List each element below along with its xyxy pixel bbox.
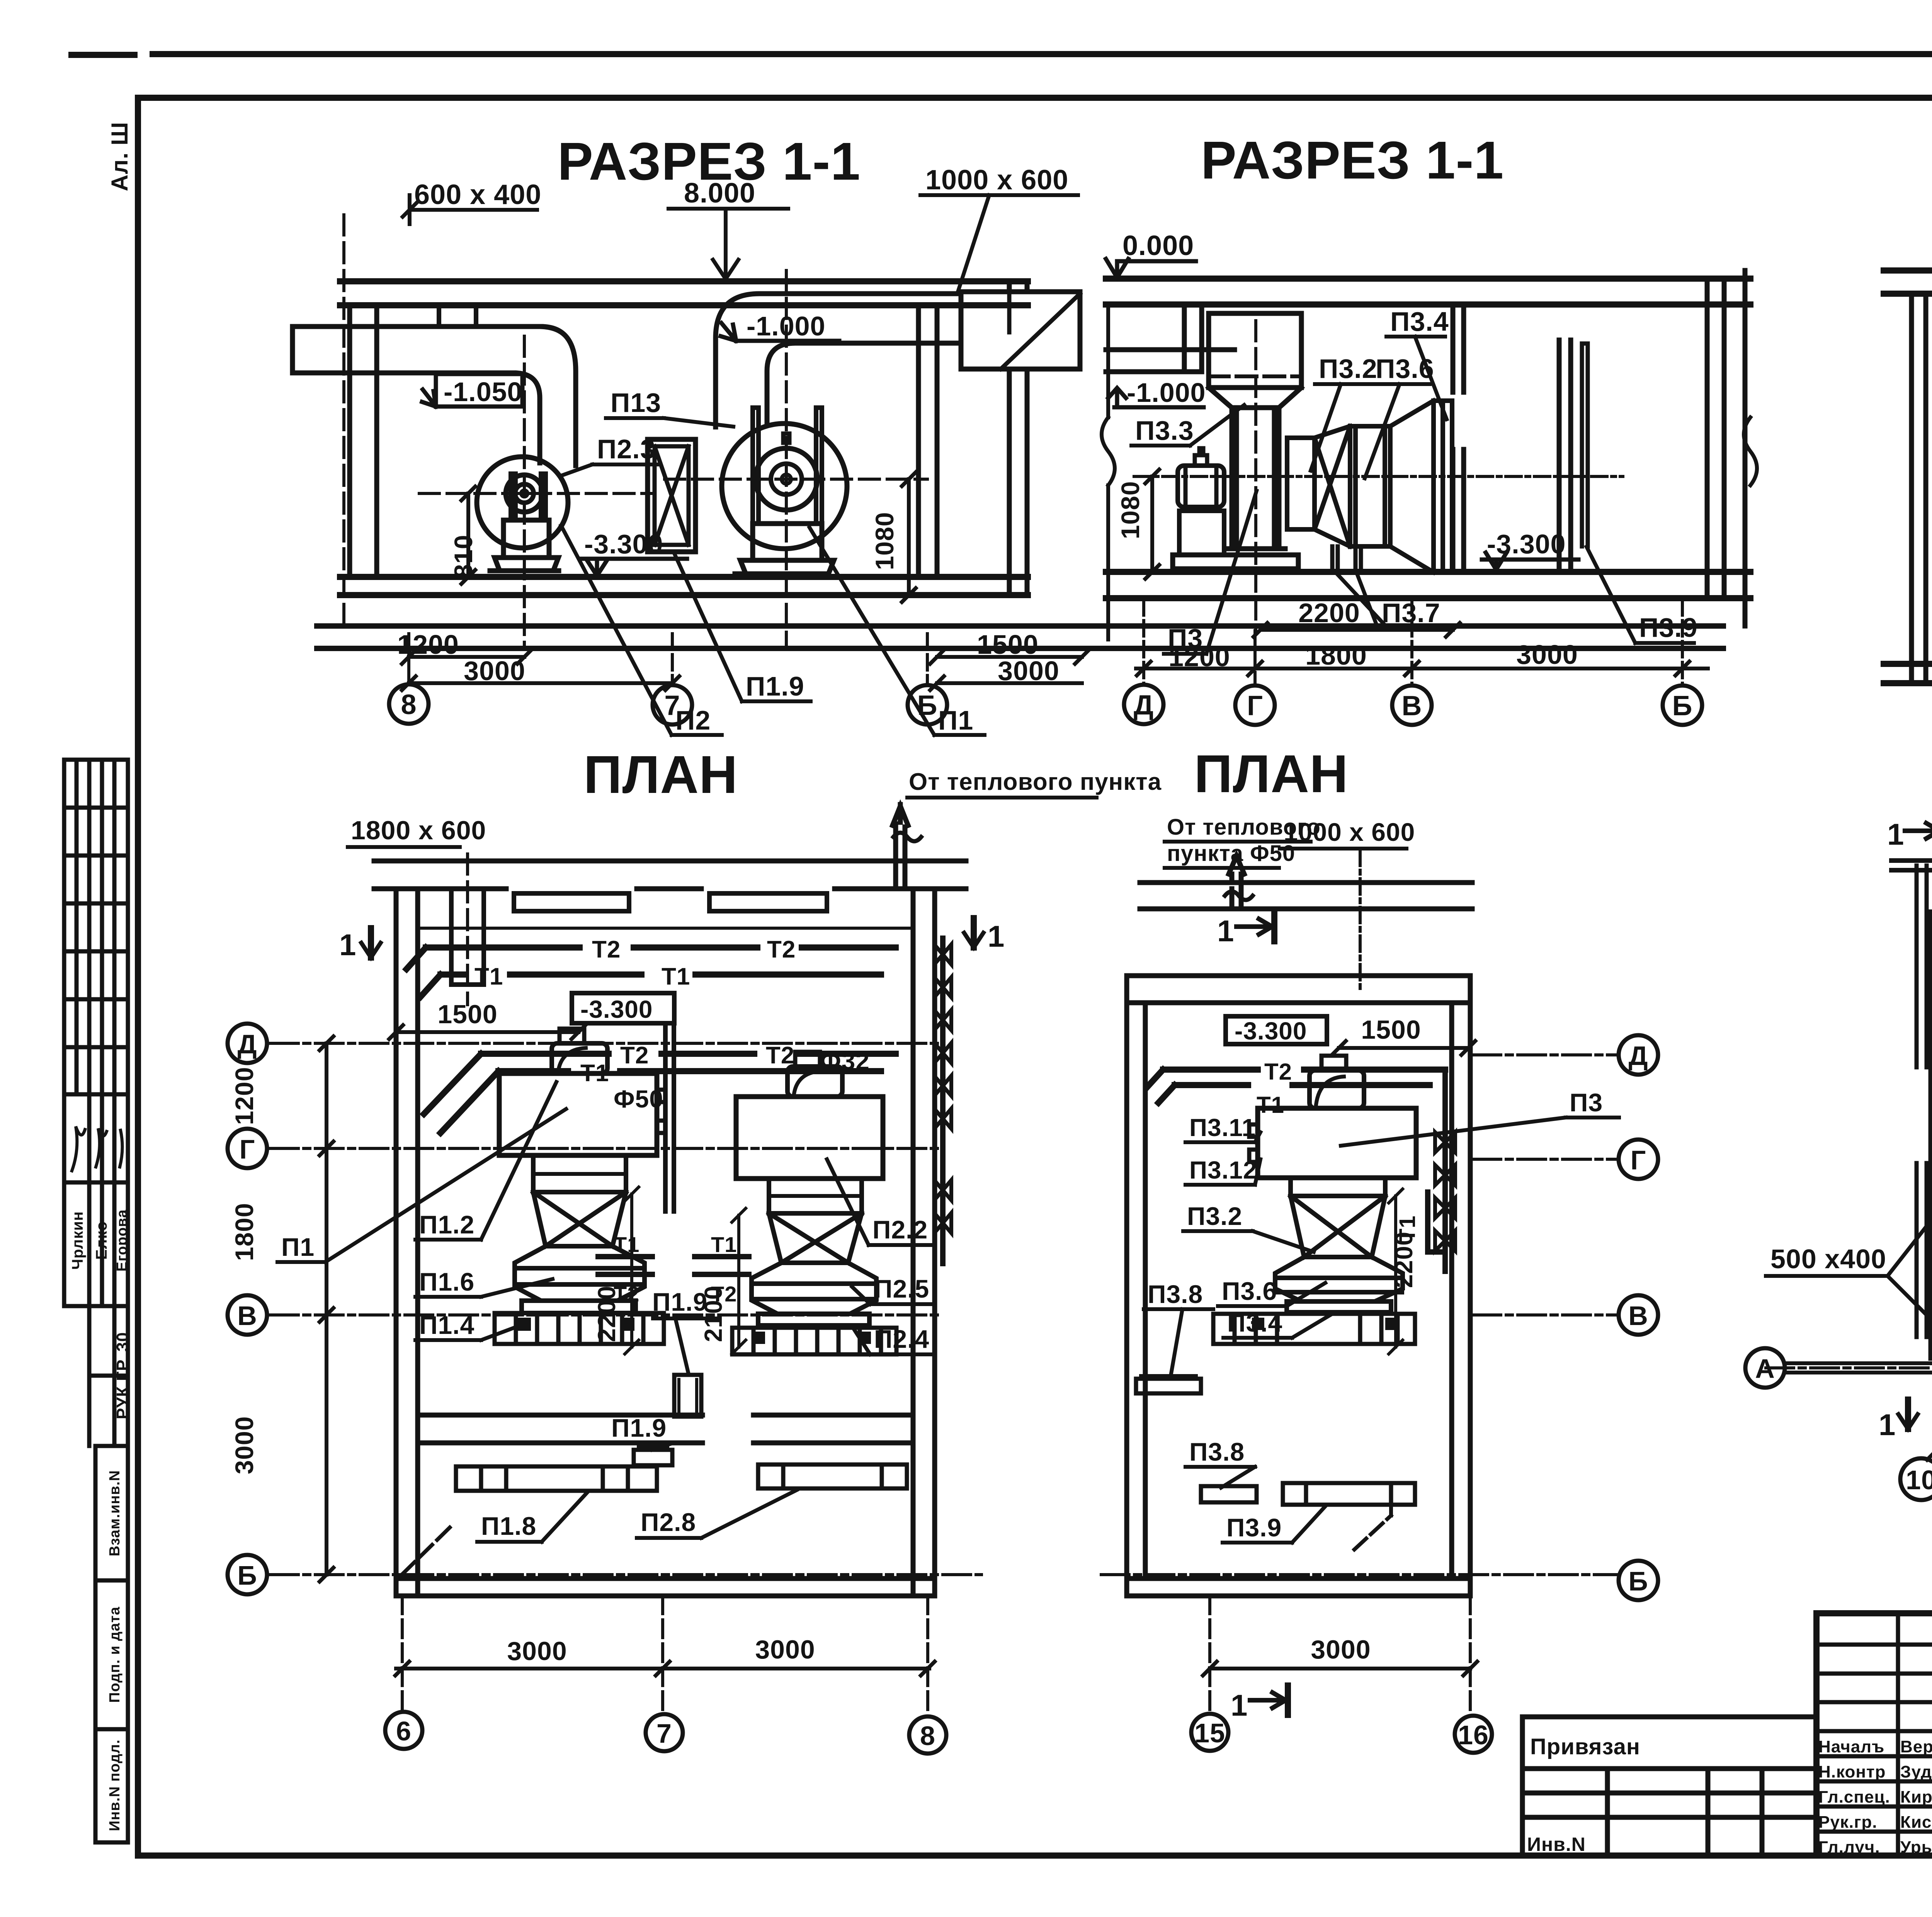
- fan П1 axes: [665, 270, 927, 649]
- axis stems: [1144, 600, 1682, 685]
- duct axis chain: [1359, 850, 1362, 989]
- expanding cone: [1390, 401, 1434, 572]
- unit П3 flange: [1291, 1178, 1385, 1196]
- left dim column: [320, 1036, 333, 1582]
- unit П3 bell: [1275, 1257, 1403, 1301]
- svg-text:Привязан: Привязан: [1530, 1734, 1640, 1759]
- svg-text:Б: Б: [1628, 1566, 1648, 1596]
- fan П1 scroll: [722, 424, 847, 549]
- svg-text:600 x 400: 600 x 400: [414, 179, 541, 210]
- svg-text:15: 15: [1194, 1718, 1225, 1748]
- valve stack riser: [940, 938, 946, 1264]
- left wall: [350, 305, 377, 577]
- svg-text:-3.300: -3.300: [584, 529, 663, 559]
- outlet flange: [1434, 401, 1452, 572]
- SECTION3: [1884, 130, 1932, 721]
- bubble Б: [1619, 1561, 1658, 1600]
- ceiling slab: [1884, 270, 1932, 294]
- unit П2 base: [758, 1314, 869, 1325]
- bubble Г: [1619, 1140, 1658, 1179]
- svg-text:Г: Г: [1247, 691, 1263, 721]
- damper box: [648, 439, 696, 552]
- svg-text:Т2: Т2: [592, 936, 621, 963]
- unit П3 chamber: [1258, 1108, 1416, 1178]
- svg-text:500 x400: 500 x400: [1770, 1244, 1886, 1274]
- stamp upper table: [64, 760, 128, 1842]
- svg-text:3000: 3000: [755, 1635, 815, 1664]
- valves: [1435, 1132, 1455, 1251]
- svg-text:П2.2: П2.2: [872, 1215, 928, 1244]
- hopper: [1209, 313, 1301, 388]
- svg-text:7: 7: [656, 1718, 672, 1749]
- drain box b: [634, 1450, 672, 1465]
- svg-text:П3.2: П3.2: [1319, 354, 1378, 384]
- svg-text:Г: Г: [1631, 1145, 1646, 1175]
- stamp lower strip: [95, 1446, 128, 1842]
- PLAN3: [1745, 757, 1932, 1502]
- svg-text:П1.8: П1.8: [481, 1512, 536, 1540]
- supports: [1328, 546, 1376, 571]
- braced cone: [1315, 426, 1350, 546]
- svg-text:П1.6: П1.6: [419, 1267, 474, 1296]
- column base: [1226, 546, 1285, 551]
- corner break: [1354, 1490, 1391, 1550]
- svg-text:1: 1: [1887, 817, 1904, 851]
- svg-text:П3.9: П3.9: [1639, 612, 1698, 643]
- bubble В: [1619, 1295, 1658, 1335]
- pipe T1: [1158, 1085, 1430, 1103]
- svg-text:В: В: [1402, 691, 1422, 721]
- svg-text:Т1: Т1: [662, 963, 690, 990]
- svg-text:Зудина: Зудина: [1900, 1762, 1932, 1781]
- bubble Г: [228, 1129, 267, 1168]
- svg-text:П2.4: П2.4: [874, 1325, 929, 1353]
- svg-text:П1: П1: [281, 1233, 315, 1261]
- bottom stems: [1210, 1596, 1470, 1714]
- svg-text:П3.12: П3.12: [1189, 1156, 1257, 1184]
- bubble 7: [653, 685, 692, 725]
- motor: [1178, 466, 1224, 507]
- right wall: [1707, 270, 1745, 626]
- left wall stub: [1184, 304, 1202, 372]
- bubble 15: [1191, 1714, 1228, 1751]
- unit П1 bell: [515, 1246, 645, 1301]
- unit П2 fan: [787, 1067, 842, 1097]
- bottom wall: [1127, 1579, 1470, 1596]
- bubble 8: [909, 1716, 946, 1754]
- corridor wall: [374, 861, 966, 889]
- unit П2 chamber: [736, 1097, 883, 1179]
- svg-text:6: 6: [396, 1716, 412, 1746]
- svg-text:Началъ: Началъ: [1818, 1737, 1884, 1756]
- unit П3 fan: [1310, 1070, 1364, 1108]
- bubble В: [228, 1295, 267, 1335]
- svg-text:1200: 1200: [230, 1067, 259, 1125]
- axis Д line: [270, 1042, 943, 1045]
- motor pedestal: [1179, 511, 1224, 555]
- svg-text:1500: 1500: [1361, 1015, 1421, 1044]
- bubble Д: [1619, 1035, 1658, 1075]
- svg-text:РУК.ГР. 30: РУК.ГР. 30: [113, 1332, 132, 1419]
- unit П3 cone: [1291, 1196, 1385, 1257]
- svg-text:1: 1: [339, 928, 356, 962]
- svg-text:1: 1: [988, 919, 1005, 953]
- svg-text:-3.300: -3.300: [1235, 1017, 1307, 1045]
- svg-text:Вержбицка: Вержбицка: [1900, 1737, 1932, 1756]
- svg-text:-1.000: -1.000: [1127, 378, 1206, 408]
- lower slab: [317, 626, 1723, 648]
- svg-text:В: В: [1628, 1301, 1648, 1331]
- fan П2 scroll: [477, 457, 568, 548]
- fan П2 axes: [419, 336, 653, 649]
- bubble Б: [908, 685, 947, 725]
- svg-text:П2.8: П2.8: [641, 1508, 696, 1536]
- axis А lines: [1785, 1363, 1932, 1373]
- svg-text:Урьев: Урьев: [1900, 1838, 1932, 1857]
- svg-text:Т1: Т1: [474, 963, 503, 990]
- heater stubs right: [695, 1257, 749, 1274]
- svg-text:П3.6: П3.6: [1222, 1277, 1277, 1305]
- right wall: [913, 889, 935, 1596]
- svg-text:Т1: Т1: [1257, 1092, 1284, 1118]
- svg-text:РАЗРЕЗ 1-1: РАЗРЕЗ 1-1: [1201, 131, 1504, 190]
- svg-text:1800 x 600: 1800 x 600: [351, 816, 486, 845]
- svg-text:А: А: [1755, 1354, 1775, 1384]
- svg-text:П3.3: П3.3: [1135, 415, 1194, 446]
- T1 drop pipe: [1428, 1192, 1444, 1252]
- unit П3 foundation: [1213, 1314, 1415, 1344]
- bubble 10: [1900, 1458, 1932, 1500]
- svg-text:8.000: 8.000: [684, 178, 755, 209]
- svg-text:1800: 1800: [1305, 640, 1367, 670]
- base plate: [1173, 555, 1298, 569]
- PLAN1: [228, 745, 1162, 1754]
- bubble Б: [1663, 685, 1702, 725]
- svg-text:3000: 3000: [1311, 1635, 1371, 1664]
- duct elbow to fan П2: [514, 327, 576, 466]
- svg-text:Д: Д: [238, 1029, 257, 1059]
- unit П2 foundation: [732, 1328, 896, 1354]
- bubble Д: [228, 1024, 267, 1063]
- unit П2 flange: [769, 1179, 862, 1213]
- svg-text:Чрлкин: Чрлкин: [69, 1211, 86, 1270]
- svg-text:7: 7: [664, 690, 680, 721]
- svg-text:1500: 1500: [437, 1000, 497, 1029]
- svg-text:П3.11: П3.11: [1189, 1114, 1256, 1141]
- svg-text:Ал. Ш: Ал. Ш: [107, 122, 133, 191]
- unit П1 flange: [533, 1155, 626, 1192]
- SECTION2: [1102, 131, 1757, 725]
- top rule line: [71, 54, 1932, 55]
- bubble 6: [385, 1712, 422, 1749]
- bubble Д: [1124, 685, 1163, 724]
- left wall: [1912, 294, 1932, 683]
- svg-text:-3.300: -3.300: [1487, 529, 1566, 559]
- room inner face line: [418, 927, 913, 930]
- ceiling slab: [340, 281, 1028, 305]
- fan П2 pedestal: [503, 520, 549, 558]
- corridor wall: [1140, 883, 1472, 909]
- far right wall: [1009, 281, 1027, 595]
- svg-text:-1.050: -1.050: [444, 377, 522, 407]
- drain box a: [1136, 1379, 1201, 1393]
- svg-text:Т1: Т1: [614, 1232, 639, 1257]
- svg-text:Т2: Т2: [1264, 1059, 1292, 1085]
- svg-text:Кириллова: Кириллова: [1900, 1788, 1932, 1806]
- svg-text:ПЛАН: ПЛАН: [583, 745, 738, 805]
- right break: [1744, 417, 1757, 485]
- corridor wall: [1891, 861, 1932, 870]
- foundation П3.9: [1283, 1483, 1415, 1505]
- left extension привязан box: [1522, 1717, 1816, 1856]
- pipe T1 upper: [420, 975, 881, 997]
- svg-text:Взам.инв.N: Взам.инв.N: [107, 1470, 123, 1556]
- unit П1 foundation: [495, 1313, 664, 1344]
- svg-text:1: 1: [1217, 914, 1234, 948]
- revision grid rows: [1816, 1645, 1932, 1832]
- svg-text:1000 x 600: 1000 x 600: [925, 165, 1068, 196]
- svg-text:П3.2: П3.2: [1187, 1202, 1242, 1230]
- box -3.300: [1226, 1016, 1327, 1044]
- axis Б line: [1101, 1573, 1618, 1576]
- corner break: [402, 1527, 450, 1575]
- bubble В: [1392, 685, 1432, 725]
- svg-text:Н.контр: Н.контр: [1818, 1762, 1886, 1781]
- svg-text:1800: 1800: [230, 1203, 259, 1261]
- bubble Б low: [228, 1555, 267, 1594]
- pipe T2 lower: [424, 1054, 896, 1114]
- svg-text:П1.2: П1.2: [419, 1210, 474, 1239]
- bubble 8: [389, 684, 429, 724]
- bubble А: [1745, 1348, 1785, 1388]
- valves: [934, 944, 951, 1233]
- LEFTSTAMP: [64, 760, 132, 1842]
- svg-text:Д: Д: [1629, 1041, 1648, 1071]
- svg-text:8: 8: [401, 689, 417, 720]
- bottom wall: [1931, 1338, 1932, 1358]
- unit П2 bell: [752, 1263, 876, 1314]
- revision grid columns: [1898, 1613, 1932, 1856]
- box -3.300: [572, 993, 674, 1023]
- stamp signature squiggles: [72, 1126, 122, 1171]
- svg-text:П1.9: П1.9: [746, 671, 804, 701]
- svg-text:Т2: Т2: [767, 936, 796, 963]
- pipe T2 upper: [406, 947, 896, 969]
- room top wall: [1931, 912, 1932, 929]
- svg-text:П3.8: П3.8: [1148, 1280, 1203, 1308]
- mid wall 1: [1453, 304, 1464, 572]
- axis Г line: [270, 1147, 943, 1150]
- heater stubs left: [598, 1257, 652, 1274]
- ceiling slab: [1106, 279, 1750, 304]
- right wall: [918, 305, 937, 577]
- unit П1 fan: [552, 1043, 607, 1073]
- svg-text:1000 x 600: 1000 x 600: [1284, 818, 1415, 846]
- floor slab: [1884, 664, 1932, 683]
- fan П1 pedestal: [753, 524, 822, 560]
- svg-text:1: 1: [1231, 1688, 1248, 1722]
- svg-text:П3.4: П3.4: [1390, 306, 1449, 337]
- unit П3 base: [1287, 1301, 1391, 1312]
- svg-text:3000: 3000: [507, 1636, 567, 1666]
- svg-text:1080: 1080: [870, 512, 899, 570]
- svg-text:Г: Г: [240, 1134, 255, 1164]
- bottom wall: [396, 1579, 935, 1596]
- axis В line: [270, 1313, 943, 1317]
- axis stems: [409, 634, 927, 684]
- svg-text:10: 10: [1906, 1465, 1932, 1495]
- bottom stems: [402, 1596, 928, 1714]
- left outer wall: [1917, 866, 1927, 1337]
- drain box b: [1201, 1486, 1257, 1502]
- axes: [1134, 475, 1623, 478]
- svg-text:Инв.N подл.: Инв.N подл.: [107, 1739, 123, 1831]
- svg-text:-3.300: -3.300: [580, 995, 653, 1023]
- fan П1 base: [735, 560, 834, 574]
- svg-text:Б: Б: [237, 1560, 257, 1590]
- svg-text:В: В: [237, 1301, 257, 1331]
- fan П1 stand: [753, 408, 822, 524]
- svg-text:От теплового пункта: От теплового пункта: [909, 769, 1162, 795]
- left wall: [1931, 912, 1932, 1358]
- svg-text:Т1: Т1: [711, 1232, 737, 1257]
- svg-text:Б: Б: [1672, 691, 1693, 721]
- PLAN2: [1101, 744, 1658, 1753]
- svg-text:8: 8: [920, 1721, 935, 1751]
- wall bar 1: [514, 893, 629, 911]
- bubble Г: [1235, 685, 1275, 725]
- right wall: [1452, 976, 1470, 1596]
- floor slab: [340, 577, 1028, 595]
- intake louver box: [961, 292, 1080, 369]
- fan П2 stand: [511, 474, 546, 520]
- svg-text:Елко: Елко: [93, 1221, 110, 1260]
- floor slab: [1106, 572, 1750, 598]
- svg-text:Рук.гр.: Рук.гр.: [1818, 1813, 1878, 1832]
- svg-text:0.000: 0.000: [1122, 230, 1194, 261]
- fan П1 duct elbow: [716, 294, 961, 427]
- level box -1.050: [422, 374, 522, 407]
- П3.9 plate: [1582, 344, 1588, 546]
- fan П1 wheel: [755, 448, 817, 510]
- riser to heat point: [1229, 856, 1244, 909]
- axis В line: [1473, 1313, 1618, 1317]
- svg-text:Подп. и дата: Подп. и дата: [107, 1606, 123, 1703]
- unit П1 base: [522, 1301, 636, 1313]
- mid wall 2: [1559, 340, 1571, 572]
- corridor slab edge: [1106, 350, 1235, 372]
- column duct: [1232, 408, 1279, 549]
- ceiling duct stub: [439, 305, 476, 327]
- svg-text:Б: Б: [917, 690, 938, 721]
- riser to heat point: [893, 805, 908, 889]
- drain box a: [674, 1375, 701, 1417]
- flanged box: [1350, 426, 1390, 546]
- fan П2 wheel: [506, 475, 543, 512]
- left break edge: [1102, 304, 1115, 640]
- axis Б line: [270, 1573, 981, 1576]
- axis Д line: [1473, 1053, 1618, 1056]
- foundation П1.8: [456, 1466, 657, 1491]
- axis Г line: [1473, 1158, 1618, 1161]
- bubble 7: [646, 1714, 683, 1751]
- room top wall: [1127, 976, 1470, 1003]
- svg-text:2200: 2200: [1390, 1232, 1418, 1288]
- transition rect: [1287, 438, 1315, 529]
- svg-text:Егорова: Егорова: [114, 1209, 130, 1271]
- svg-text:Гл.луч.: Гл.луч.: [1818, 1838, 1880, 1857]
- unit П1 cone: [533, 1192, 626, 1246]
- TITLEBLOCK: [1522, 1613, 1932, 1861]
- svg-text:-1.000: -1.000: [747, 311, 825, 341]
- svg-text:3000: 3000: [1516, 640, 1578, 670]
- unit П1 chamber: [499, 1073, 657, 1155]
- svg-text:П13: П13: [611, 388, 661, 418]
- SECTION1: [293, 132, 1723, 735]
- valve riser: [1442, 1070, 1448, 1271]
- fan П2 base: [490, 558, 559, 571]
- wall bar 2: [709, 893, 827, 911]
- main block outline: [1816, 1613, 1932, 1856]
- left wall: [1127, 976, 1145, 1596]
- foundation П2.8: [758, 1465, 907, 1488]
- supply duct horizontal: [293, 327, 541, 373]
- svg-text:П1.9: П1.9: [611, 1414, 667, 1442]
- svg-text:1: 1: [1879, 1408, 1896, 1442]
- svg-text:ПЛАН: ПЛАН: [1194, 744, 1348, 804]
- svg-text:Инв.N: Инв.N: [1527, 1834, 1586, 1855]
- svg-text:Гл.спец.: Гл.спец.: [1818, 1788, 1890, 1806]
- stamp signature cells: [64, 1094, 128, 1446]
- svg-text:Киселева: Киселева: [1900, 1813, 1932, 1832]
- partition wall: [418, 1415, 913, 1443]
- svg-text:П3.9: П3.9: [1226, 1513, 1282, 1542]
- bottom dim line: [1136, 662, 1708, 675]
- svg-text:П2.3: П2.3: [597, 434, 656, 464]
- svg-text:2200: 2200: [1298, 598, 1360, 628]
- svg-text:Ф32: Ф32: [820, 1047, 870, 1075]
- heat pipe column: [665, 1028, 674, 1211]
- hopper flare: [1209, 388, 1301, 408]
- pipe T1 lower: [440, 1071, 881, 1133]
- svg-text:1080: 1080: [1116, 481, 1145, 539]
- svg-text:П2.5: П2.5: [874, 1274, 929, 1303]
- bubble 16: [1455, 1716, 1492, 1753]
- svg-text:П3: П3: [1570, 1088, 1603, 1117]
- svg-text:Д: Д: [1134, 690, 1154, 721]
- left wall: [396, 889, 418, 1596]
- svg-text:П3.8: П3.8: [1189, 1437, 1245, 1466]
- unit П2 cone: [769, 1213, 862, 1263]
- svg-text:Т2: Т2: [620, 1042, 649, 1069]
- svg-text:3000: 3000: [230, 1416, 259, 1475]
- duct drop pair: [451, 889, 484, 985]
- svg-text:П1: П1: [938, 705, 973, 735]
- svg-text:П3.4: П3.4: [1227, 1308, 1282, 1337]
- svg-text:16: 16: [1458, 1720, 1489, 1750]
- pipe T2: [1148, 1070, 1445, 1087]
- left axis extension: [342, 215, 345, 630]
